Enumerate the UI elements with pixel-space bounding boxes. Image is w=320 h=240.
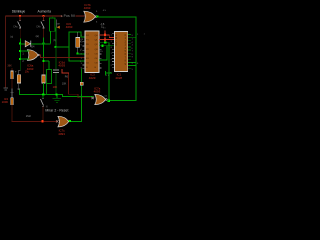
svg-text:1M: 1M [57, 23, 60, 25]
junction cross below chips [105, 72, 112, 75]
node dot column b lower [42, 60, 44, 62]
node junction dot button Aumenta [42, 15, 44, 17]
wire top +9V rail [5, 16, 61, 17]
wire gate input 1 [20, 50, 29, 51]
node dot diode tap [19, 43, 21, 45]
switch SW2 Aumenta [43, 20, 45, 23]
svg-text:D4: D4 [31, 44, 35, 48]
wire clock down right side [135, 16, 136, 101]
svg-text:4093: 4093 [66, 25, 73, 29]
wire lower loop to chip [68, 61, 84, 62]
wire clock to right [97, 16, 136, 17]
node dot IC7b output [96, 15, 98, 17]
wire green QC chip1 to riser [99, 41, 109, 44]
node dot ground tap [56, 93, 58, 95]
wire R3 top stub [11, 68, 14, 71]
resistor R2 body (in line with column b) [42, 62, 45, 75]
gate IC6a NAND left [27, 50, 39, 61]
svg-text:4093: 4093 [58, 132, 65, 136]
svg-text:Mirar 2 - Reset: Mirar 2 - Reset [45, 109, 68, 113]
svg-text:100K: 100K [2, 100, 9, 104]
wire green column b full [43, 37, 44, 75]
wire reset switch to bottom rail [42, 107, 45, 122]
wire IC6d branch from node b [43, 61, 44, 62]
capacitor C2 on wiper column [55, 48, 58, 70]
svg-text:36K: 36K [7, 64, 12, 67]
node dot IC7c output [69, 120, 71, 122]
chip IC1 4028 body [114, 31, 127, 71]
wire clock node to chip [78, 53, 85, 54]
battery marks at left rail end [3, 87, 7, 90]
chip IC1 right pin stubs green [128, 33, 131, 36]
wire green button1 column [20, 39, 21, 61]
node dot bottom rail [42, 120, 44, 122]
chip IC3 4029 body [85, 31, 99, 72]
gate IC7b NAND top [84, 11, 97, 22]
wire button1 upper stub [20, 16, 21, 21]
node dot gate input 1 [19, 50, 21, 52]
svg-text:(b): (b) [53, 40, 56, 42]
gate IC7a NAND [91, 94, 107, 104]
ground symbol [55, 95, 58, 98]
wire long red horizontal [40, 57, 84, 58]
node dot red A [104, 34, 106, 36]
chip IC3 left pin stubs [83, 40, 85, 43]
wire wiper node to clock column [56, 47, 70, 48]
chip IC3 right pin stubs [99, 48, 102, 51]
switch SW3 reset [42, 95, 45, 98]
svg-text:10K: 10K [62, 82, 67, 85]
wire red QA chip1 to chip2 [99, 33, 110, 36]
wire left rail vertical [5, 16, 6, 88]
wire button2 upper stub [43, 16, 44, 21]
svg-text:+: + [15, 69, 17, 73]
svg-text:(a): (a) [36, 34, 39, 38]
capacitor C3 body (orange) [76, 32, 79, 37]
gate IC7c NAND bottom [56, 116, 69, 127]
wire bottom of right vertical going left [110, 100, 137, 101]
resistor R4 body [11, 98, 14, 105]
wire R3 to R4 [11, 79, 14, 91]
wire bottom rail [12, 121, 58, 122]
svg-text:4029: 4029 [89, 76, 96, 80]
wire gate input 2 [20, 59, 29, 60]
chip IC1 left pin stubs [112, 33, 114, 36]
svg-text:1M2: 1M2 [26, 114, 32, 118]
node dot green C [104, 42, 106, 44]
wire IC6a output to long red [39, 55, 41, 56]
node dot red B [104, 38, 106, 40]
resistor R5 body green outline [46, 70, 51, 84]
wire R1 bottom lead [50, 31, 51, 43]
wire R4 down to bottom rail [11, 105, 14, 122]
wire cap C1 bottom to bus [18, 83, 21, 90]
svg-text:(a): (a) [10, 37, 13, 39]
svg-text:N: N [46, 106, 48, 109]
node dot gate input 2 [19, 58, 21, 60]
svg-text:4093: 4093 [94, 89, 101, 93]
wire preset vertical between chips [108, 43, 111, 101]
svg-text:4028: 4028 [115, 76, 122, 80]
svg-text:4093: 4093 [58, 64, 65, 68]
svg-text:10u: 10u [25, 70, 30, 73]
potentiometer wiper marks [57, 26, 60, 29]
capacitor C1 body [17, 75, 20, 83]
wire to diode D1 [20, 43, 25, 44]
wire green reset bus [19, 94, 63, 95]
wire into cap C1 [19, 60, 22, 71]
wire red IC6d output corner [60, 69, 63, 73]
svg-text:Aumenta: Aumenta [38, 9, 52, 13]
svg-text:4093: 4093 [84, 6, 91, 10]
node dot green D [102, 45, 104, 47]
node dot clock [77, 53, 79, 55]
wire R1 top lead [51, 16, 54, 18]
wire dark red down to IC7a [67, 74, 70, 95]
svg-text:C4b: C4b [36, 27, 41, 29]
wire green QD chip1 to chip2 with loop [99, 44, 115, 47]
svg-text:C4a: C4a [13, 27, 18, 29]
switch SW1 Disminuye [19, 20, 21, 23]
node junction dot button Disminuye [19, 15, 21, 17]
svg-text:Pos 9V: Pos 9V [64, 14, 76, 18]
node dot at column b [42, 43, 44, 45]
wire button1 lower stub dark [19, 28, 22, 38]
svg-text:Disminuye: Disminuye [12, 9, 26, 13]
wire clock loop upper [68, 31, 81, 32]
node dot wiper [54, 46, 56, 48]
wire diode output to node b [31, 43, 50, 44]
svg-text:10K: 10K [53, 85, 58, 89]
diode D1 [25, 41, 31, 47]
node dot IC7a output [108, 100, 110, 102]
wire R5 bottom to bus [46, 83, 47, 94]
wire riser IC7c output [81, 94, 82, 122]
wire button2 lower stub dark [42, 28, 45, 37]
resistor R3 body [11, 71, 14, 79]
resistor R1 body (green outline) [50, 18, 55, 31]
node dot bus at column b [42, 93, 44, 95]
wire red QB chip1 to chip2 [99, 38, 115, 41]
wire wiper lead down [55, 28, 58, 47]
wire chip1 VSS down to bus [80, 69, 83, 95]
